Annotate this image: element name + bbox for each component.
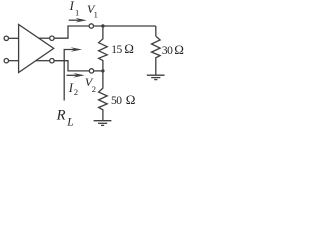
svg-text:Ω: Ω <box>126 92 136 107</box>
svg-text:2: 2 <box>92 84 96 94</box>
lower input terminal circle <box>4 59 8 63</box>
current arrow I2 shaft <box>67 74 80 76</box>
ground below 50 ohm <box>94 120 112 122</box>
arrowhead I2 <box>73 73 85 78</box>
wire upper input stub <box>9 37 19 39</box>
wire V2 circle to junction <box>94 70 103 72</box>
svg-text:2: 2 <box>74 87 78 97</box>
svg-text:30: 30 <box>162 45 173 57</box>
node V2 terminal circle <box>89 69 93 73</box>
junction node V1 dot <box>101 24 104 27</box>
arrowhead R_L <box>71 47 83 52</box>
wire upper output stub <box>39 37 50 39</box>
op-amp U1 (amplifier triangle) <box>19 25 54 73</box>
svg-text:Ω: Ω <box>174 42 184 57</box>
svg-text:I: I <box>69 0 75 13</box>
resistor 30 ohm <box>152 36 161 75</box>
wire upper output to top rail <box>54 26 89 38</box>
R_L looking-in indicator line <box>64 50 77 101</box>
wire lower output to node V2 <box>54 61 89 71</box>
wire 30 ohm top lead <box>155 26 157 36</box>
svg-text:R: R <box>56 108 66 124</box>
wire top rail <box>94 25 156 27</box>
svg-text:L: L <box>66 116 73 128</box>
node V1 terminal circle <box>89 24 93 28</box>
svg-text:I: I <box>68 81 74 95</box>
current arrow I1 shaft <box>69 19 82 21</box>
svg-text:15: 15 <box>111 44 122 56</box>
resistor 15 ohm <box>99 26 108 71</box>
upper input terminal circle <box>4 36 8 40</box>
junction node V2 dot <box>101 69 104 72</box>
svg-text:1: 1 <box>94 10 98 20</box>
resistor 50 ohm <box>99 71 108 120</box>
lower output terminal circle <box>50 59 54 63</box>
arrowhead I1 <box>75 18 87 23</box>
wire lower output stub <box>36 60 50 62</box>
svg-text:Ω: Ω <box>124 41 134 56</box>
upper output terminal circle <box>50 36 54 40</box>
svg-text:1: 1 <box>75 8 79 18</box>
wire lower input stub <box>9 60 19 62</box>
svg-text:50: 50 <box>111 95 122 107</box>
ground below 30 ohm <box>147 74 165 76</box>
